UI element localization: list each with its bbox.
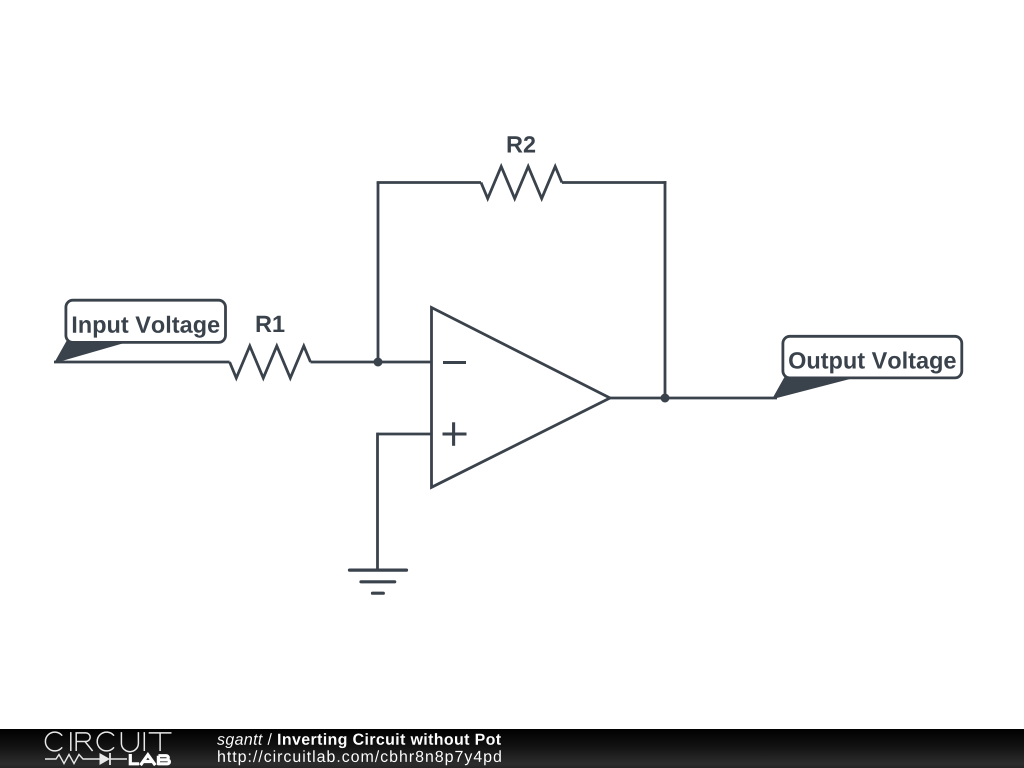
wire: non-inverting input horizontal (378, 433, 432, 436)
node: junction at inverting input (374, 358, 383, 367)
wire: feedback left vertical (377, 183, 380, 363)
wire: input net from Input Voltage tail to R1 (54, 361, 230, 364)
wire: non-inverting input vertical to ground (376, 433, 379, 570)
wire: feedback top-right horizontal from R2 (562, 181, 667, 184)
footer bar (0, 729, 1024, 768)
wire: feedback right vertical down to output node (664, 181, 667, 398)
label R2 (508, 136, 535, 152)
op-amp U1 (432, 308, 611, 488)
wire: node to op-amp inverting input (378, 361, 432, 364)
CircuitLab logo: LAB wordmark (drawn as bold strokes) (130, 754, 169, 765)
callout: Output Voltage annotation (772, 336, 962, 399)
CircuitLab logo: CIRCUIT wordmark (drawn as thin strokes) (45, 732, 171, 752)
footer text: author / title (217, 733, 501, 748)
node: output junction (661, 394, 670, 403)
resistor R2 (481, 167, 562, 199)
callout: Input Voltage annotation (54, 300, 226, 363)
resistor R1 (230, 346, 311, 378)
wire: feedback top-left horizontal to R2 (377, 181, 481, 184)
wire: op-amp output to output node (610, 397, 665, 400)
op-amp inverting input (−) symbol (443, 361, 466, 364)
ground symbol (350, 570, 407, 593)
wire: R1 to inverting-input node (311, 361, 379, 364)
label R1 (257, 316, 285, 332)
wire: output node to Output Voltage tail (665, 397, 777, 400)
footer text: url (218, 750, 501, 765)
CircuitLab logo: resistor-diode underline (45, 753, 127, 765)
op-amp non-inverting input (+) symbol (443, 422, 467, 446)
